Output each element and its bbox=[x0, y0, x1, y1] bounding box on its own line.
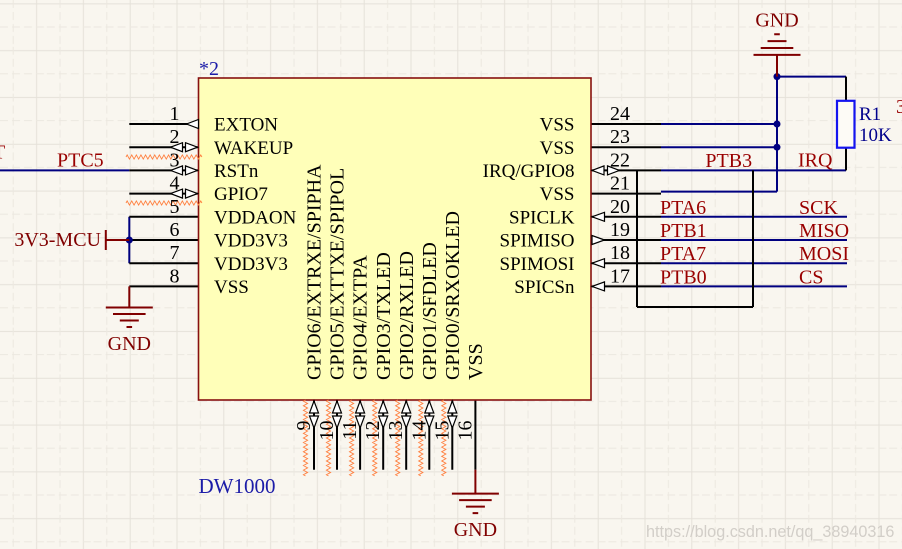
svg-text:https://blog.csdn.net/qq_38940: https://blog.csdn.net/qq_38940316 bbox=[646, 523, 894, 541]
svg-text:VDDAON: VDDAON bbox=[214, 207, 297, 228]
svg-text:GPIO1/SFDLED: GPIO1/SFDLED bbox=[419, 242, 441, 380]
svg-text:8: 8 bbox=[170, 265, 180, 287]
svg-text:22: 22 bbox=[610, 149, 630, 171]
svg-text:3: 3 bbox=[170, 149, 180, 171]
svg-text:GPIO2/RXLED: GPIO2/RXLED bbox=[396, 251, 418, 380]
svg-text:SPIMISO: SPIMISO bbox=[500, 231, 575, 252]
svg-text:SPICSn: SPICSn bbox=[514, 277, 575, 298]
svg-text:IRQ: IRQ bbox=[798, 150, 833, 172]
svg-text:GPIO7: GPIO7 bbox=[214, 184, 268, 205]
svg-text:11: 11 bbox=[339, 421, 361, 440]
svg-text:12: 12 bbox=[362, 421, 384, 441]
svg-text:EXTON: EXTON bbox=[214, 115, 278, 136]
svg-text:VSS: VSS bbox=[540, 138, 575, 159]
svg-text:DW1000: DW1000 bbox=[199, 474, 276, 498]
svg-text:MISO: MISO bbox=[799, 220, 849, 242]
svg-text:2: 2 bbox=[170, 126, 180, 148]
svg-text:7: 7 bbox=[170, 242, 180, 264]
svg-text:24: 24 bbox=[610, 103, 630, 125]
svg-text:4: 4 bbox=[170, 173, 180, 195]
svg-text:13: 13 bbox=[385, 421, 407, 441]
svg-text:PTA7: PTA7 bbox=[660, 243, 706, 265]
svg-text:GPIO4/EXTPA: GPIO4/EXTPA bbox=[350, 255, 372, 380]
svg-text:GPIO3/TXLED: GPIO3/TXLED bbox=[373, 252, 395, 380]
svg-text:CS: CS bbox=[799, 266, 823, 288]
svg-text:1: 1 bbox=[170, 103, 180, 125]
svg-text:VDD3V3: VDD3V3 bbox=[214, 254, 288, 275]
svg-text:GND: GND bbox=[755, 10, 798, 32]
svg-text:PTB3: PTB3 bbox=[705, 150, 752, 172]
svg-text:9: 9 bbox=[293, 421, 315, 431]
svg-text:GND: GND bbox=[454, 519, 497, 541]
svg-text:IRQ/GPIO8: IRQ/GPIO8 bbox=[483, 161, 575, 182]
svg-text:GPIO6/EXTRXE/SPIPHA: GPIO6/EXTRXE/SPIPHA bbox=[304, 164, 326, 380]
svg-text:R1: R1 bbox=[859, 104, 881, 125]
svg-text:PTB1: PTB1 bbox=[660, 220, 707, 242]
svg-text:15: 15 bbox=[431, 421, 453, 441]
svg-text:WAKEUP: WAKEUP bbox=[214, 138, 293, 159]
svg-text:VDD3V3: VDD3V3 bbox=[214, 231, 288, 252]
svg-text:VSS: VSS bbox=[465, 343, 487, 380]
svg-text:GPIO0/SRXOKLED: GPIO0/SRXOKLED bbox=[442, 211, 464, 380]
svg-text:RSTn: RSTn bbox=[214, 161, 259, 182]
svg-text:14: 14 bbox=[408, 421, 430, 441]
svg-text:SPICLK: SPICLK bbox=[509, 207, 575, 228]
svg-text:23: 23 bbox=[610, 126, 630, 148]
svg-text:SCK: SCK bbox=[799, 197, 838, 219]
svg-text:5: 5 bbox=[170, 196, 180, 218]
svg-text:MOSI: MOSI bbox=[799, 243, 849, 265]
svg-text:*2: *2 bbox=[199, 58, 219, 80]
svg-text:3V3-MCU: 3V3-MCU bbox=[14, 229, 101, 251]
svg-text:19: 19 bbox=[610, 219, 630, 241]
svg-text:18: 18 bbox=[610, 242, 630, 264]
svg-text:T: T bbox=[0, 142, 5, 164]
svg-text:PTB0: PTB0 bbox=[660, 266, 707, 288]
svg-text:3: 3 bbox=[896, 96, 902, 118]
svg-text:21: 21 bbox=[610, 173, 630, 195]
svg-text:SPIMOSI: SPIMOSI bbox=[500, 254, 575, 275]
svg-text:17: 17 bbox=[610, 265, 630, 287]
svg-text:PTA6: PTA6 bbox=[660, 197, 706, 219]
svg-text:20: 20 bbox=[610, 196, 630, 218]
svg-text:VSS: VSS bbox=[540, 184, 575, 205]
svg-text:VSS: VSS bbox=[540, 115, 575, 136]
svg-text:GND: GND bbox=[108, 333, 151, 355]
svg-text:PTC5: PTC5 bbox=[57, 149, 104, 171]
svg-text:10K: 10K bbox=[859, 125, 892, 146]
svg-text:16: 16 bbox=[454, 421, 476, 441]
svg-text:GPIO5/EXTTXE/SPIPOL: GPIO5/EXTTXE/SPIPOL bbox=[327, 168, 349, 380]
svg-text:10: 10 bbox=[316, 421, 338, 441]
svg-text:6: 6 bbox=[170, 219, 180, 241]
svg-text:VSS: VSS bbox=[214, 277, 249, 298]
